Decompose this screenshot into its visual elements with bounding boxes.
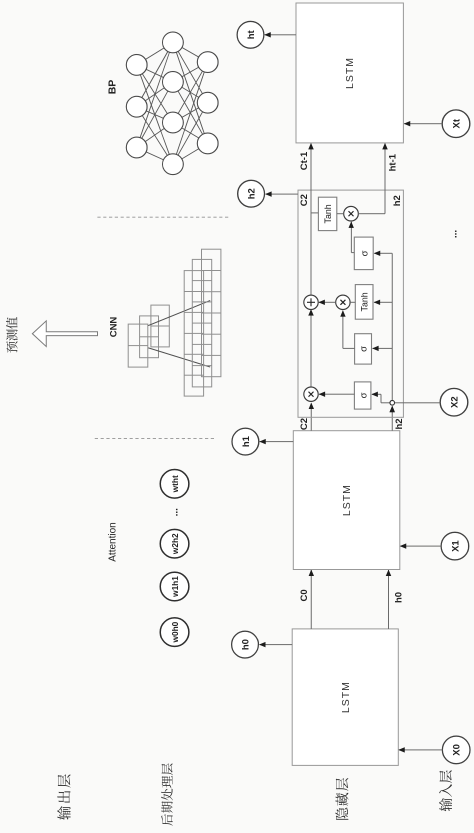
wire tanh-cand to x2 [350, 301, 355, 303]
CNN conv line left [148, 348, 210, 367]
wire tap to tanh-candidate [374, 301, 392, 303]
wire x2 to add [319, 301, 336, 303]
svg-text:C2: C2 [299, 194, 310, 206]
circle Xt [442, 110, 470, 138]
svg-text:h2: h2 [394, 418, 405, 429]
gate box sigma output [354, 237, 373, 270]
svg-text:h2: h2 [392, 195, 403, 206]
wire X1 input [401, 545, 442, 547]
svg-text:h2: h2 [247, 188, 258, 199]
svg-text:ht-1: ht-1 [387, 153, 398, 171]
BP neuron circles [126, 32, 218, 175]
label output-layer 输出层 [57, 806, 70, 820]
CNN input strip 2 [192, 259, 211, 386]
wire sigma-input to x2 [343, 347, 355, 349]
circle h0 [232, 631, 259, 658]
circle h2 [238, 180, 265, 207]
wire ht output [265, 34, 296, 36]
LSTM box t [296, 3, 403, 143]
svg-text:LSTM: LSTM [344, 57, 356, 89]
wire X0 input [399, 749, 442, 751]
label post-processing-layer 后期处理层 [161, 814, 173, 826]
svg-text:C2: C2 [299, 418, 310, 430]
CNN input strip 1 [184, 271, 203, 397]
dashed separator 1 [97, 216, 228, 218]
wire sigma-output to x3 [351, 252, 354, 254]
svg-text:X2: X2 [449, 396, 460, 408]
label hidden-layer 隐藏层 [335, 808, 348, 820]
wire C0 [310, 570, 312, 629]
op-circle multiply output [344, 206, 359, 221]
gate box Tanh candidate [355, 285, 373, 320]
op-circle multiply forget [304, 387, 318, 401]
op-circle add [304, 295, 318, 309]
cell C-line plus to exit [310, 143, 312, 295]
wire tanh-out to x3 [337, 213, 344, 215]
hollow up-arrow to predicted value [32, 321, 97, 347]
wire x3 to ht-1 exit [358, 213, 385, 215]
svg-text:LSTM: LSTM [340, 681, 352, 713]
svg-text:Tanh: Tanh [323, 204, 333, 223]
label input-layer 输入层 [439, 798, 452, 811]
svg-text:X0: X0 [452, 744, 463, 756]
wire tap to sigma-output [374, 252, 392, 254]
circle X0 [442, 736, 470, 764]
svg-text:wtht: wtht [170, 475, 180, 493]
wire node to sigma-forget [381, 402, 390, 404]
svg-text:...: ... [170, 508, 181, 517]
CNN feature-map strip A [151, 305, 169, 347]
cell C-line x1 to plus [310, 309, 312, 387]
svg-text:w2h2: w2h2 [170, 533, 180, 555]
wire h0 output [260, 644, 293, 646]
circle X2 [440, 388, 468, 416]
attention circle w1h1 [160, 572, 189, 601]
cell C tap to output tanh [311, 212, 318, 214]
LSTM box t1 [293, 431, 400, 570]
gate box Tanh output [318, 197, 336, 230]
node h2-X2 junction [390, 400, 395, 405]
svg-text:w1h1: w1h1 [170, 576, 180, 598]
op-circle multiply input [336, 295, 350, 309]
wire tap to sigma-input [373, 347, 393, 349]
wire Xt input [404, 123, 442, 125]
wire h2 output [266, 193, 298, 195]
svg-text:h0: h0 [240, 639, 251, 650]
gate box sigma forget [354, 382, 371, 409]
svg-text:Ct-1: Ct-1 [299, 151, 310, 170]
svg-text:h0: h0 [393, 592, 404, 603]
wire C2 into cell [310, 404, 312, 431]
svg-text:X1: X1 [450, 540, 461, 552]
wire h2 into cell [391, 407, 393, 431]
svg-text:Tanh: Tanh [360, 292, 370, 311]
LSTM box t0 [292, 629, 398, 766]
svg-text:ht: ht [246, 29, 257, 39]
gate box sigma input [355, 334, 372, 364]
wire arrow Ct-1 into LSTM t [308, 143, 313, 150]
svg-text:σ: σ [359, 346, 370, 352]
svg-text:LSTM: LSTM [341, 484, 353, 516]
LSTM cell detail box [298, 190, 403, 417]
svg-text:σ: σ [359, 250, 370, 256]
attention circle wtht [160, 469, 189, 498]
svg-text:CNN: CNN [109, 317, 120, 338]
wire X2 input [395, 402, 440, 404]
wire h0 to t1 [388, 570, 390, 629]
svg-text:C0: C0 [299, 589, 310, 601]
svg-text:BP: BP [107, 80, 119, 95]
CNN input strip 3 [202, 249, 221, 377]
CNN feature-map strip B [140, 316, 159, 358]
svg-text:w0h0: w0h0 [170, 621, 180, 643]
wire h1 output [260, 441, 294, 443]
dashed separator 2 [95, 438, 216, 440]
label predicted-value 预测值 [6, 341, 17, 352]
wire sigma-forget to x1 [319, 393, 354, 395]
BP network edges [140, 48, 204, 160]
attention circle w0h0 [160, 618, 189, 647]
CNN feature-map strip C [128, 324, 148, 367]
attention circle w2h2 [160, 529, 189, 558]
circle h1 [232, 428, 259, 455]
svg-text:σ: σ [358, 392, 369, 398]
arrow h2 into node [390, 406, 395, 413]
svg-text:Attention: Attention [108, 522, 119, 561]
CNN conv line right [148, 301, 210, 326]
circle ht [237, 21, 264, 48]
svg-text:...: ... [448, 230, 459, 239]
svg-text:Xt: Xt [451, 118, 462, 128]
circle X1 [441, 532, 469, 560]
wire h-line across gates [391, 253, 393, 400]
svg-text:h1: h1 [241, 435, 252, 447]
